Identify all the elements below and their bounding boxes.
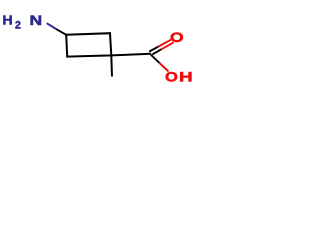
bond C1-C(carboxyl): [111, 54, 151, 56]
svg-text:O: O: [170, 30, 184, 45]
double bond C=O lower line (red half): [162, 42, 174, 49]
cyclobutane ring: [66, 33, 111, 56]
bond N-C3 (blue half): [47, 23, 57, 29]
double bond C=O upper line (red half): [159, 40, 172, 47]
methyl bond C1-CH3: [110, 55, 113, 76]
hydroxyl OH label: [165, 69, 193, 85]
bond C-OH (black half): [151, 55, 160, 63]
double bond C=O lower line (black half): [152, 49, 161, 54]
svg-text:H: H: [3, 13, 13, 27]
bond C-OH (red half): [160, 63, 169, 72]
svg-text:H: H: [179, 69, 193, 85]
bond N-C3 (black half): [56, 29, 66, 35]
svg-text:2: 2: [15, 19, 21, 31]
svg-text:O: O: [165, 69, 178, 85]
amine label H2N: [3, 13, 43, 31]
double bond C=O upper line (black half): [149, 47, 158, 52]
svg-text:N: N: [30, 14, 43, 29]
